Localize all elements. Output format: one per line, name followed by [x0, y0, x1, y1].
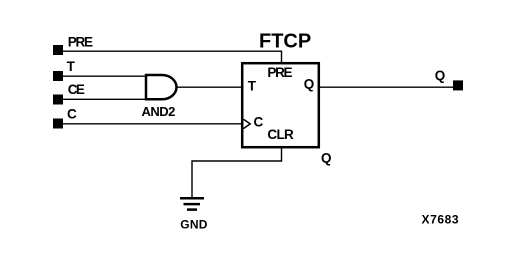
wire T net: pin to AND2 input 1 — [63, 75, 146, 77]
svg-text:PRE: PRE — [68, 35, 93, 50]
svg-text:GND: GND — [180, 218, 208, 232]
clock chevron on flip-flop C input — [244, 119, 251, 128]
svg-text:C: C — [254, 115, 264, 130]
and-gate AND2 — [146, 75, 176, 99]
svg-text:AND2: AND2 — [142, 104, 176, 119]
output pin Q (terminal square) — [453, 80, 463, 90]
svg-text:Q: Q — [321, 151, 332, 166]
ground symbol GND — [180, 198, 204, 209]
wire AND2 output to flip-flop T input — [176, 86, 242, 88]
svg-text:FTCP: FTCP — [259, 30, 311, 52]
svg-text:Q: Q — [435, 68, 446, 83]
svg-text:X7683: X7683 — [422, 213, 460, 227]
svg-text:CE: CE — [68, 82, 85, 97]
input pin T (terminal square) — [53, 71, 63, 81]
wire CLR net: flip-flop CLR to ground — [192, 147, 282, 197]
input pin PRE (terminal square) — [53, 45, 63, 55]
svg-text:C: C — [67, 107, 77, 122]
svg-text:T: T — [67, 59, 76, 74]
wire PRE net: pin to flip-flop top — [63, 51, 282, 62]
svg-text:T: T — [248, 79, 257, 94]
wire CE net: pin to AND2 input 2 — [63, 98, 146, 100]
svg-text:CLR: CLR — [267, 127, 294, 142]
input pin C (terminal square) — [53, 119, 63, 129]
flip-flop U1 FTCP (symbol body) — [242, 63, 319, 147]
wire Q net: flip-flop Q output to output pin — [319, 86, 453, 88]
input pin CE (terminal square) — [53, 95, 63, 105]
wire C net: pin to flip-flop clock input — [63, 123, 242, 125]
svg-text:PRE: PRE — [267, 65, 292, 80]
svg-text:Q: Q — [304, 77, 315, 92]
